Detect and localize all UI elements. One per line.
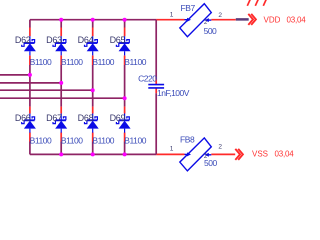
junction dot M2 column2 [59, 81, 63, 85]
junction dot top rail D63 [59, 18, 63, 22]
ferrite bead FB7 [180, 4, 212, 37]
wire top rail VDD (red segment to FB7) [156, 19, 184, 21]
wire capacitor branch lower [155, 88, 157, 154]
svg-text:D64: D64 [78, 35, 94, 45]
svg-text:2: 2 [218, 12, 222, 19]
junction dot M4 column4 [123, 96, 127, 100]
svg-text:FB8: FB8 [180, 134, 195, 144]
wire column4 middle vertical [124, 56, 126, 114]
cut-off marks top right [247, 0, 266, 6]
svg-text:B1100: B1100 [61, 136, 83, 146]
wire column1 upper vertical [29, 20, 31, 37]
svg-text:C220: C220 [138, 73, 157, 83]
svg-text:2: 2 [218, 144, 222, 151]
svg-text:B1100: B1100 [30, 57, 52, 67]
junction dot bottom rail D67 [59, 152, 63, 156]
wire signal line M2 [0, 82, 62, 84]
svg-text:1: 1 [170, 145, 174, 152]
svg-text:D62: D62 [15, 35, 31, 45]
wire top rail VDD (dark) [30, 19, 156, 21]
svg-text:03,04: 03,04 [287, 16, 307, 25]
svg-text:D68: D68 [78, 113, 94, 123]
junction dot M1 column1 [28, 73, 32, 77]
diode D62 [22, 36, 36, 55]
diode D69 [116, 114, 130, 133]
capacitor C220 [148, 85, 164, 88]
svg-text:1nF,100V: 1nF,100V [157, 88, 190, 98]
junction dot bottom rail D69 [123, 152, 127, 156]
svg-text:FB7: FB7 [181, 3, 196, 13]
svg-text:1: 1 [170, 11, 174, 18]
wire column4 lower vertical [124, 133, 126, 155]
wire signal line M1 [0, 74, 31, 76]
diode D64 [85, 36, 99, 55]
wire FB8 pin2 to off-page [211, 153, 235, 155]
junction dot M3 column3 [91, 88, 95, 92]
wire column3 upper vertical [92, 20, 94, 37]
svg-text:VDD: VDD [264, 16, 281, 25]
svg-text:D66: D66 [15, 113, 31, 123]
wire signal line M4 [0, 97, 125, 99]
wire capacitor branch upper [155, 20, 157, 85]
off-page connector VDD [236, 14, 256, 25]
svg-text:B1100: B1100 [61, 57, 83, 67]
svg-text:D65: D65 [110, 35, 126, 45]
svg-text:03,04: 03,04 [275, 149, 295, 158]
wire column2 upper vertical [60, 20, 62, 37]
svg-text:B1100: B1100 [30, 136, 52, 146]
junction dot top rail D65 [123, 18, 127, 22]
svg-text:D63: D63 [46, 35, 62, 45]
wire column1 lower vertical [29, 133, 31, 155]
svg-text:B1100: B1100 [124, 136, 146, 146]
wire bottom rail VSS (dark) [30, 153, 156, 155]
wire column1 middle vertical [29, 56, 31, 114]
svg-text:B1100: B1100 [92, 57, 114, 67]
wire signal line M3 [0, 89, 94, 91]
svg-text:500: 500 [204, 26, 217, 36]
junction dot bottom rail D68 [91, 152, 95, 156]
wire column4 upper vertical [124, 20, 126, 37]
wire FB7 pin2 to off-page [211, 19, 236, 21]
off-page connector VSS [235, 149, 243, 160]
wire column2 middle vertical [60, 56, 62, 114]
wire bottom rail VSS (red segment to FB8) [156, 153, 184, 155]
svg-text:D67: D67 [46, 113, 62, 123]
wire column3 lower vertical [92, 133, 94, 155]
diode D66 [22, 114, 36, 133]
diode D63 [53, 36, 67, 55]
wire column3 middle vertical [92, 56, 94, 114]
diode D68 [85, 114, 99, 133]
wire column2 lower vertical [60, 133, 62, 155]
junction dot top rail D64 [91, 18, 95, 22]
svg-text:B1100: B1100 [92, 136, 114, 146]
svg-text:VSS: VSS [252, 149, 268, 158]
diode D67 [53, 114, 67, 133]
ferrite bead FB8 [180, 138, 212, 171]
diode D65 [116, 36, 130, 55]
svg-text:B1100: B1100 [124, 57, 146, 67]
svg-text:D69: D69 [110, 113, 126, 123]
